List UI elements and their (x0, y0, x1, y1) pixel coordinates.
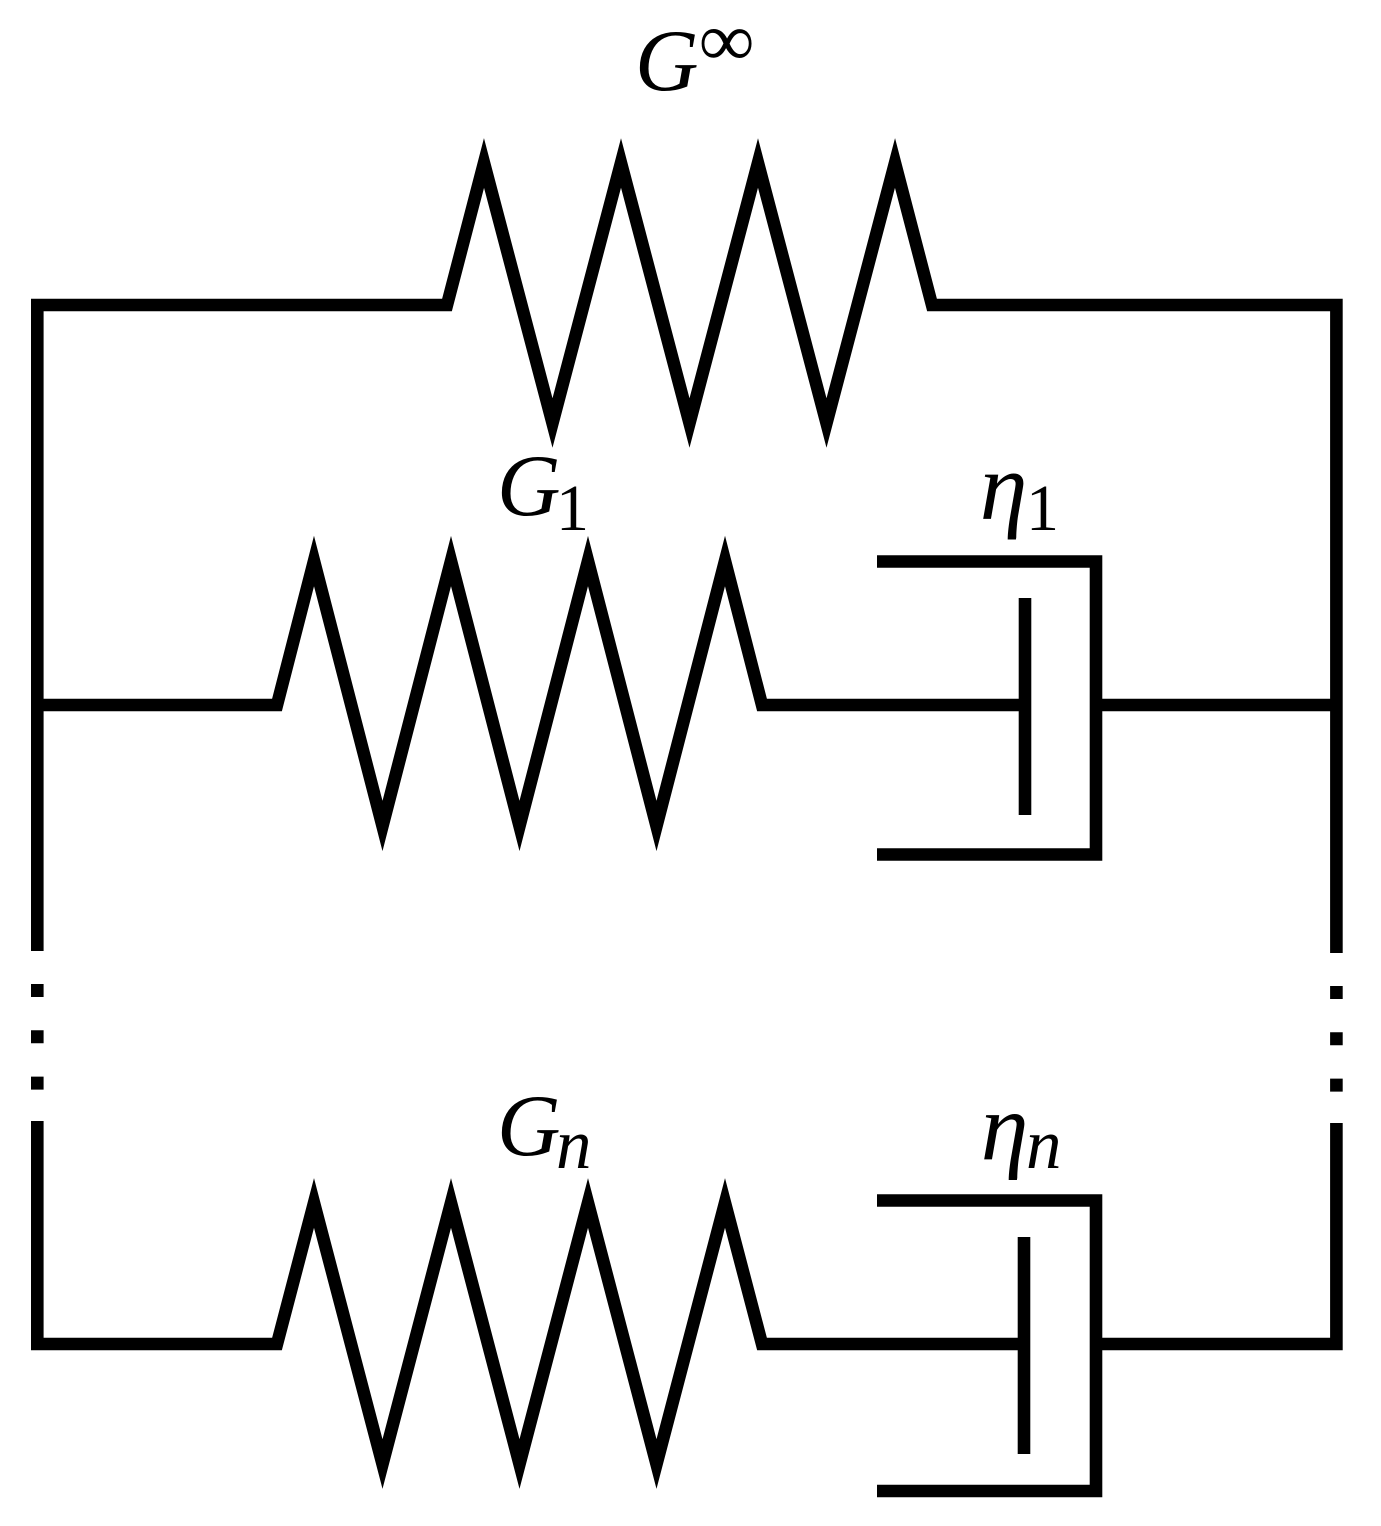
svg-text:G: G (497, 1078, 561, 1175)
svg-text:η: η (981, 1074, 1029, 1181)
svg-text:1: 1 (1026, 472, 1059, 545)
svg-text:1: 1 (556, 472, 589, 545)
svg-text:η: η (980, 433, 1028, 540)
svg-text:n: n (556, 1106, 592, 1184)
svg-text:G: G (635, 13, 699, 110)
svg-text:G: G (497, 438, 561, 535)
svg-text:n: n (1026, 1106, 1062, 1184)
svg-text:∞: ∞ (700, 0, 754, 83)
